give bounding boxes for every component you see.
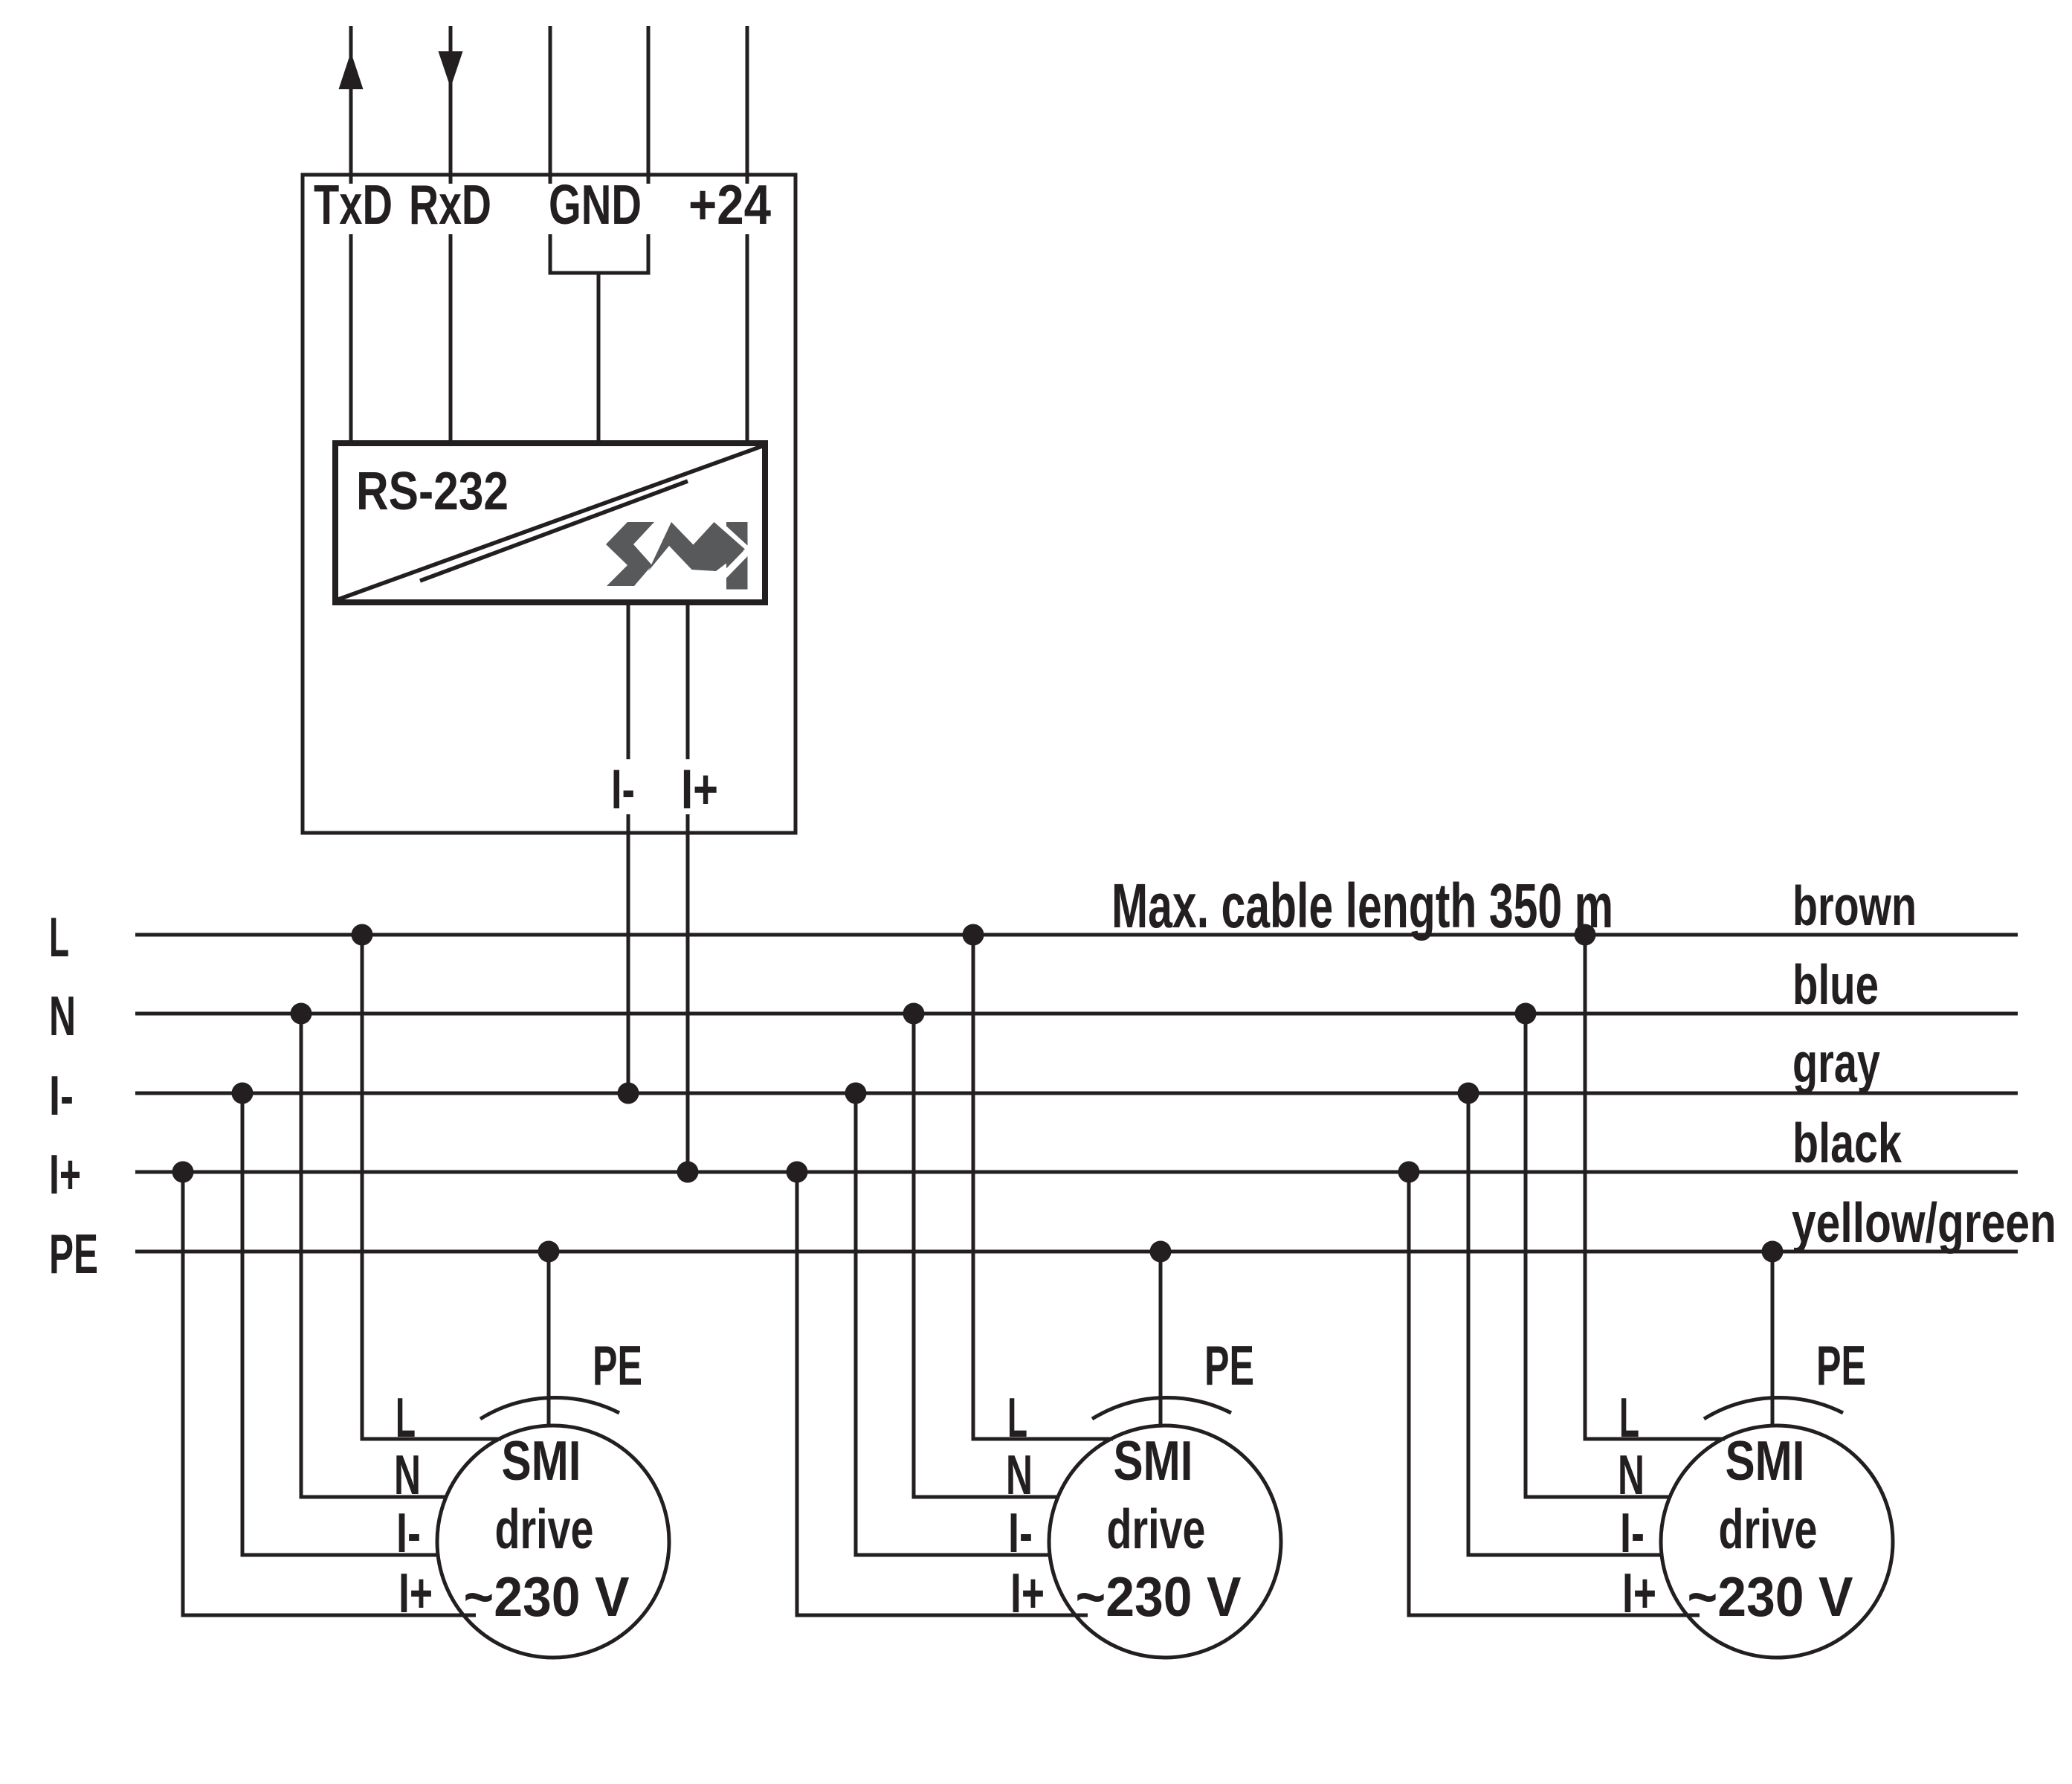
svg-text:TxD: TxD — [314, 173, 393, 236]
bus line I- — [135, 1092, 2018, 1095]
svg-text:SMI: SMI — [1726, 1429, 1805, 1492]
svg-text:black: black — [1792, 1112, 1902, 1174]
svg-text:PE: PE — [593, 1334, 642, 1397]
drive 3 PE drop wire — [1771, 1252, 1775, 1426]
svg-text:L: L — [1007, 1386, 1027, 1449]
junction I- / drive 1 — [232, 1083, 254, 1104]
SMI logo I-bar lower white slash — [723, 550, 749, 577]
svg-text:N: N — [49, 985, 76, 1047]
svg-text:Max. cable length 350 m: Max. cable length 350 m — [1111, 871, 1613, 941]
svg-text:L: L — [1619, 1386, 1639, 1449]
arrowhead RxD input (down) — [439, 51, 463, 88]
junction I- converter — [618, 1083, 639, 1104]
converter short diagonal — [420, 481, 688, 581]
drive 3 I+ drop wire — [1409, 1172, 1700, 1615]
junction I+ converter — [677, 1162, 699, 1183]
svg-text:~230 V: ~230 V — [464, 1565, 630, 1628]
svg-text:~230 V: ~230 V — [1076, 1565, 1242, 1628]
drive 1 PE shield arc — [480, 1397, 619, 1419]
svg-text:gray: gray — [1792, 1031, 1880, 1094]
svg-text:I-: I- — [611, 758, 635, 820]
svg-text:PE: PE — [1204, 1334, 1254, 1397]
RS-232 converter module U1 — [335, 443, 765, 602]
wire RxD (PC to converter) — [449, 26, 453, 446]
svg-text:L: L — [49, 906, 69, 968]
drive 2 L drop wire — [973, 935, 1113, 1439]
drive 1 I- drop wire — [242, 1093, 439, 1555]
wire GND bracket — [549, 271, 651, 275]
junction L / drive 1 — [352, 924, 373, 946]
svg-text:~230 V: ~230 V — [1688, 1565, 1853, 1628]
bus line N — [135, 1012, 2018, 1016]
drive 2 motor circle M2 — [1049, 1426, 1281, 1658]
drive 3 motor circle M3 — [1661, 1426, 1893, 1658]
junction N / drive 1 — [291, 1003, 312, 1025]
converter main diagonal — [338, 446, 762, 599]
wire GND center drop — [597, 271, 601, 447]
svg-text:L: L — [396, 1386, 416, 1449]
svg-text:+24: +24 — [688, 173, 771, 236]
svg-text:I-: I- — [49, 1064, 74, 1127]
svg-text:RS-232: RS-232 — [356, 462, 509, 521]
svg-text:RxD: RxD — [409, 173, 491, 236]
svg-text:GND: GND — [549, 173, 642, 236]
drive 1 PE drop wire — [547, 1252, 551, 1426]
svg-text:SMI: SMI — [502, 1429, 581, 1492]
drive 1 motor circle M1 — [437, 1426, 669, 1658]
svg-text:SMI: SMI — [1114, 1429, 1193, 1492]
svg-text:PE: PE — [1816, 1334, 1866, 1397]
junction L / drive 2 — [963, 924, 984, 946]
arrowhead TxD output (up) — [339, 52, 364, 89]
junction N / drive 2 — [903, 1003, 925, 1025]
svg-text:I+: I+ — [398, 1562, 433, 1624]
drive 1 I+ drop wire — [183, 1172, 476, 1615]
SMI logo glyph M — [648, 522, 745, 571]
junction I- / drive 2 — [845, 1083, 867, 1104]
svg-text:I+: I+ — [681, 758, 718, 820]
junction I+ / drive 1 — [172, 1162, 194, 1183]
drive 2 PE shield arc — [1092, 1397, 1231, 1419]
svg-text:N: N — [394, 1443, 421, 1506]
drive 3 I- drop wire — [1468, 1093, 1662, 1555]
interface enclosure box — [303, 175, 795, 833]
svg-text:drive: drive — [1107, 1498, 1206, 1560]
SMI logo glyph I — [726, 522, 748, 590]
svg-text:PE: PE — [49, 1223, 98, 1285]
SMI logo glyph S — [606, 522, 654, 586]
svg-text:blue: blue — [1792, 953, 1879, 1016]
svg-text:I+: I+ — [1622, 1562, 1656, 1624]
svg-text:I-: I- — [396, 1501, 421, 1564]
svg-text:drive: drive — [495, 1498, 594, 1560]
svg-text:N: N — [1618, 1443, 1645, 1506]
wire GND left — [549, 26, 552, 273]
drive 2 PE drop wire — [1159, 1252, 1163, 1426]
wire TxD (converter to PC) — [349, 26, 353, 446]
drive 3 N drop wire — [1526, 1014, 1670, 1497]
junction L / drive 3 — [1575, 924, 1596, 946]
drive 3 L drop wire — [1585, 935, 1725, 1439]
drive 2 I+ drop wire — [797, 1172, 1088, 1615]
svg-text:I-: I- — [1008, 1501, 1033, 1564]
svg-text:N: N — [1006, 1443, 1033, 1506]
svg-text:I-: I- — [1620, 1501, 1645, 1564]
wire I+ from converter — [686, 602, 690, 1172]
drive 2 N drop wire — [914, 1014, 1058, 1497]
bus line I+ — [135, 1170, 2018, 1174]
drive 2 I- drop wire — [856, 1093, 1050, 1555]
junction PE / drive 1 — [538, 1241, 560, 1263]
svg-text:drive: drive — [1719, 1498, 1818, 1560]
SMI logo I-bar upper white slash — [723, 528, 749, 552]
svg-text:I+: I+ — [1010, 1562, 1045, 1624]
junction I+ / drive 2 — [787, 1162, 808, 1183]
junction N / drive 3 — [1515, 1003, 1537, 1025]
drive 3 PE shield arc — [1704, 1397, 1843, 1419]
junction PE / drive 3 — [1762, 1241, 1784, 1263]
drive 1 N drop wire — [301, 1014, 446, 1497]
junction PE / drive 2 — [1150, 1241, 1172, 1263]
wire I- from converter — [627, 602, 630, 1093]
svg-text:brown: brown — [1792, 875, 1917, 937]
svg-text:I+: I+ — [49, 1143, 81, 1205]
wire GND right — [647, 26, 651, 273]
junction I- / drive 3 — [1458, 1083, 1479, 1104]
drive 1 L drop wire — [362, 935, 501, 1439]
junction I+ / drive 3 — [1398, 1162, 1420, 1183]
bus line L — [135, 933, 2018, 937]
svg-text:yellow/green: yellow/green — [1792, 1191, 2056, 1254]
wire +24 supply — [746, 26, 749, 446]
bus line PE — [135, 1250, 2018, 1254]
